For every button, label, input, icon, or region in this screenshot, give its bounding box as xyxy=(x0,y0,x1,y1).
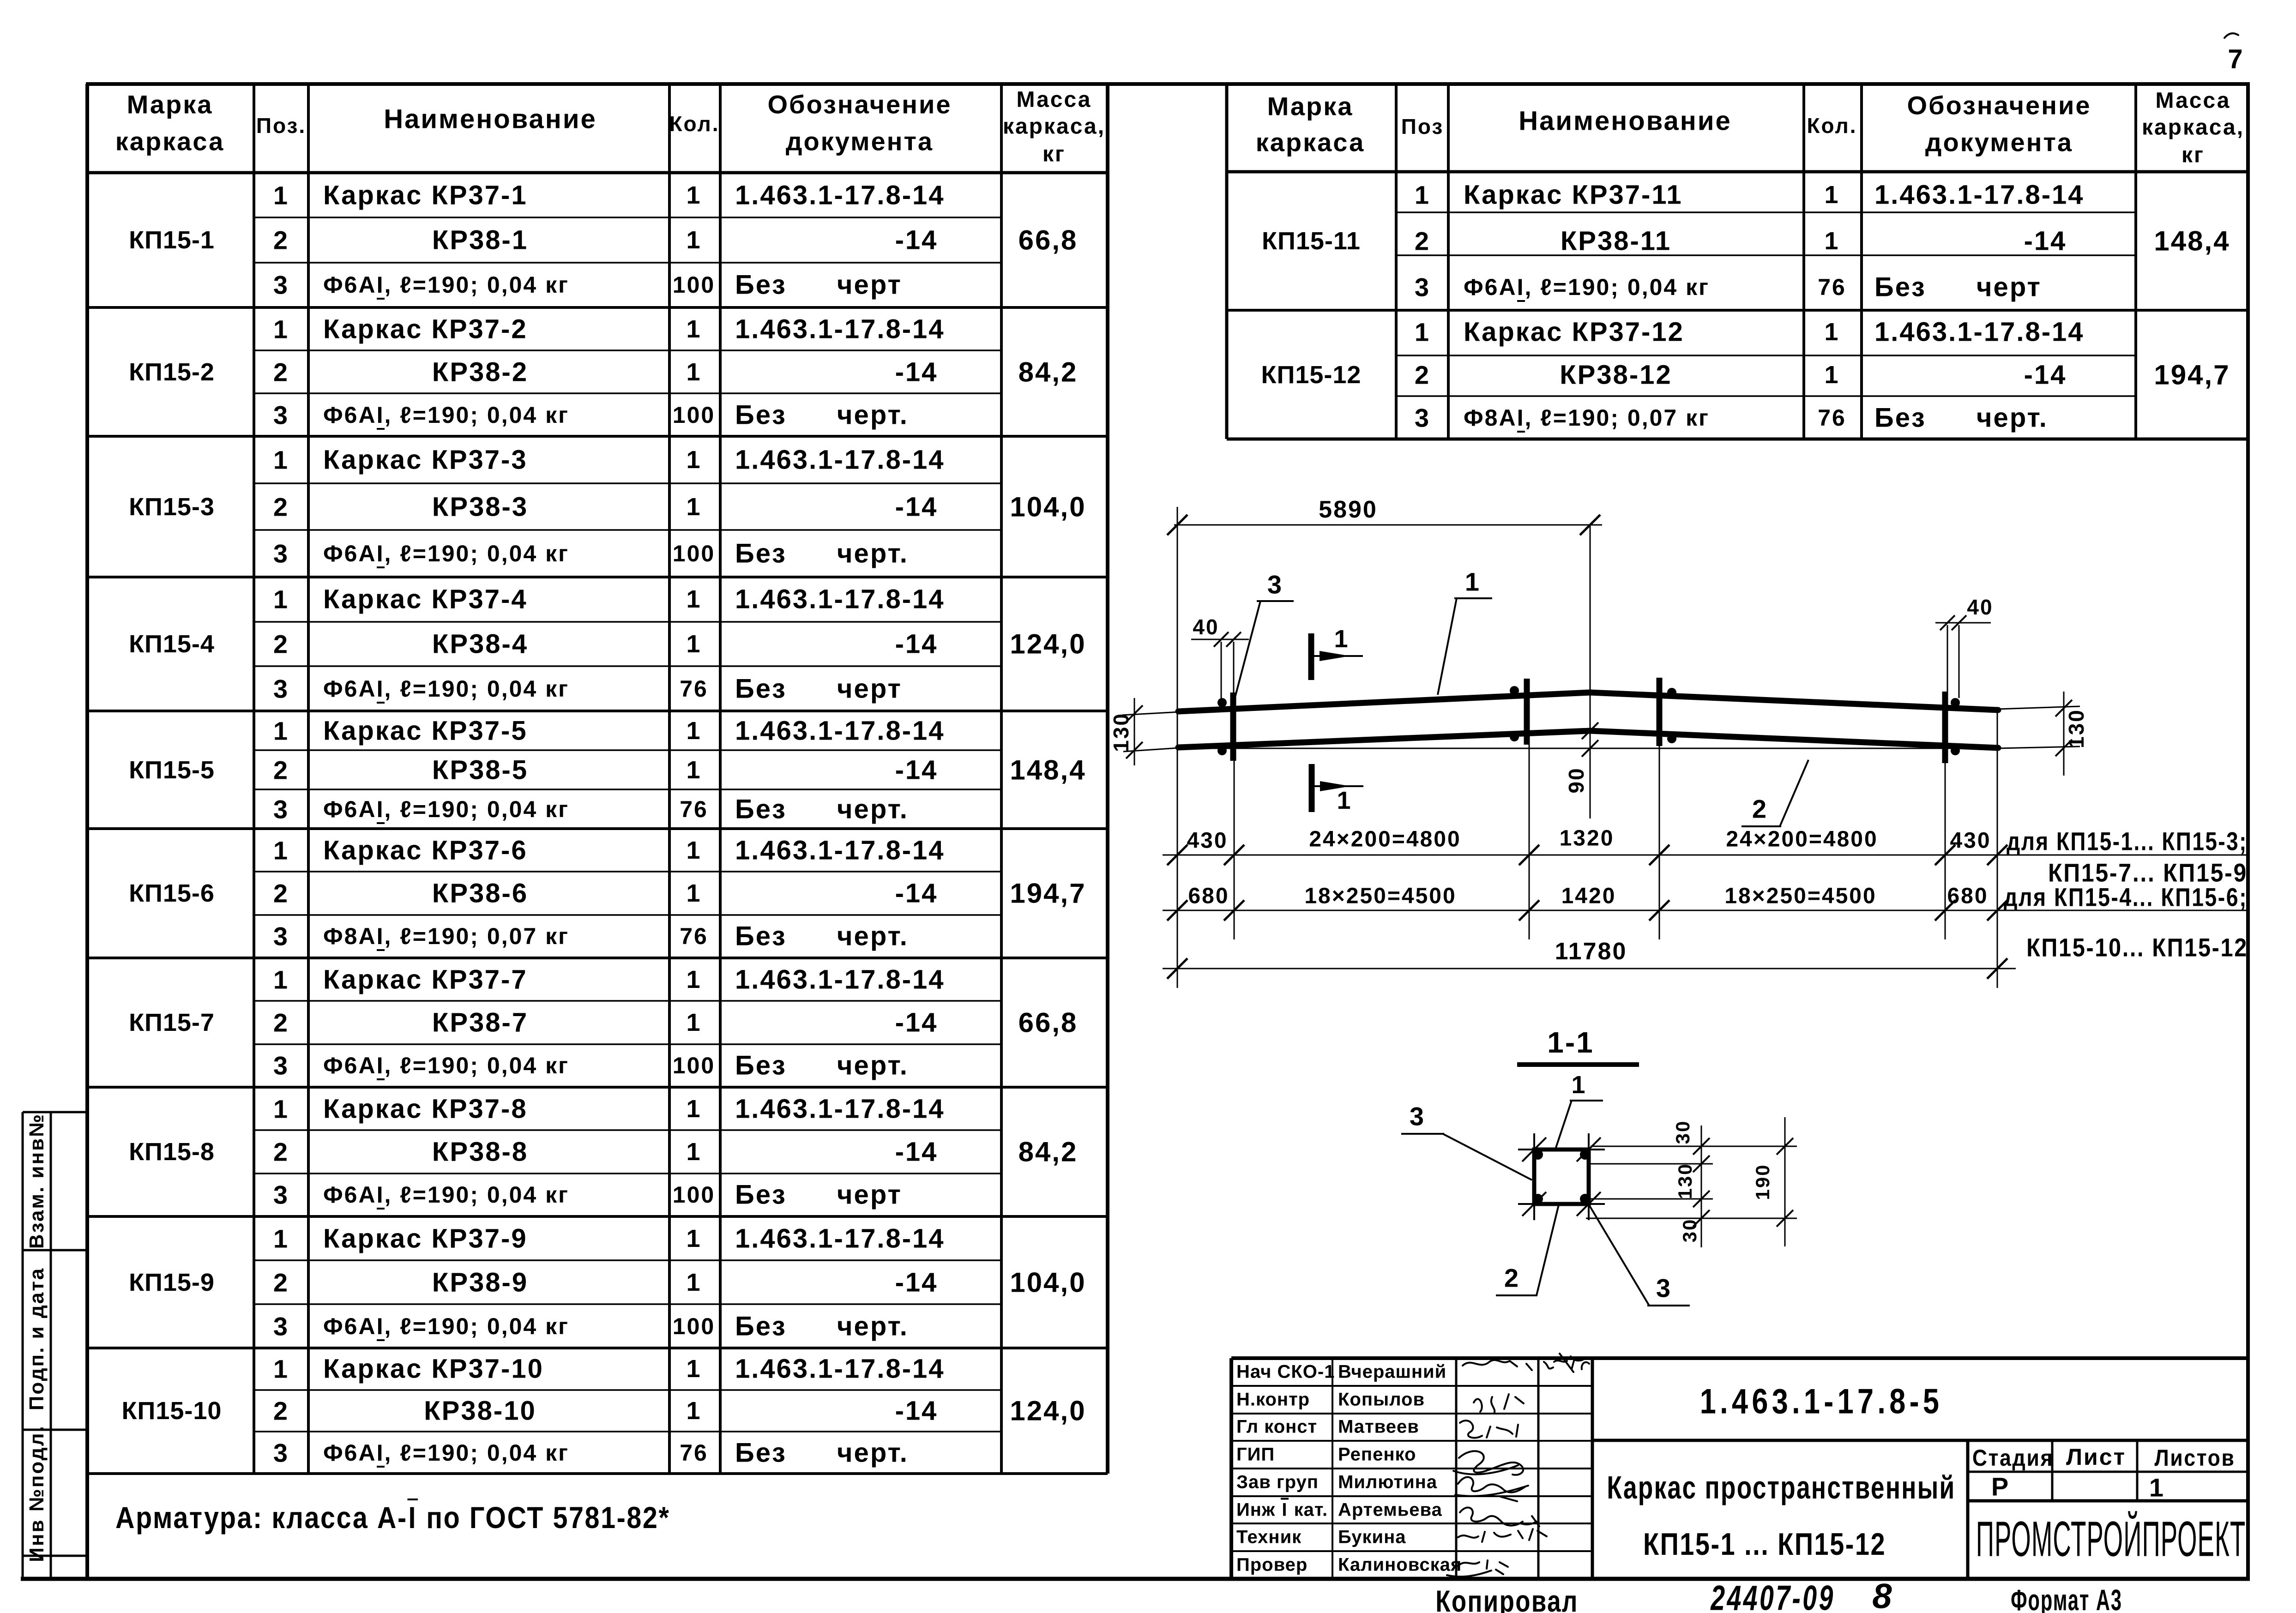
listov value 1 xyxy=(2149,1473,2165,1503)
left margin box line (Podp i data) xyxy=(23,1249,86,1252)
section dim text 130 xyxy=(1674,1162,1696,1199)
right table row КП15-11 xyxy=(1262,227,1361,255)
label 1 (section) xyxy=(1571,1071,1586,1099)
label 3 (elevation) xyxy=(1267,570,1283,600)
right end extension line xyxy=(1997,710,1998,988)
dimension 130 left xyxy=(1134,698,1135,765)
page frame left border xyxy=(85,84,89,1579)
section mark 1 upper xyxy=(1308,633,1314,680)
right table header Poz xyxy=(1401,114,1444,139)
title block divider under document number xyxy=(1592,1439,2249,1442)
bottom chord (element 2) xyxy=(1178,731,1998,748)
right post xyxy=(1942,692,1948,763)
top chord (element 1) xyxy=(1178,692,1998,711)
leader line for label 3 xyxy=(1257,600,1294,602)
left margin boxes outer vertical xyxy=(22,1112,24,1579)
section square corner overshoots xyxy=(1518,1149,1605,1150)
thin extension right bottom xyxy=(1997,746,2080,748)
stadia section verticals xyxy=(1966,1440,1970,1579)
title block role and name texts xyxy=(1236,1361,1335,1382)
signature scribbles xyxy=(1463,1354,1586,1372)
stadia value P xyxy=(1991,1472,2010,1502)
label 3 upper (section) xyxy=(1410,1101,1425,1132)
organization PROMSTROYPROEKT xyxy=(1976,1510,2246,1568)
stadia header xyxy=(1972,1444,2054,1471)
left table row КП15-9 xyxy=(129,1268,215,1297)
left table row КП15-10 xyxy=(122,1396,222,1425)
left table sub-row thin lines xyxy=(254,217,1001,218)
note Armatura klassa A-I po GOST 5781-82 xyxy=(115,1500,670,1535)
dimension text 680 left xyxy=(1188,884,1229,909)
stud left top xyxy=(1217,698,1227,707)
section dimension line 30/130/30 xyxy=(1701,1125,1702,1247)
section extension lines xyxy=(1591,1146,1797,1147)
right table header Naimenovanie xyxy=(1519,106,1732,137)
stud mid-right top xyxy=(1667,688,1676,697)
stud mid-left bottom xyxy=(1510,732,1519,741)
right table sub-row thin lines xyxy=(1396,211,2136,213)
footer Kopiroval xyxy=(1435,1583,1579,1613)
dimension chain row 1 line xyxy=(1163,855,2247,856)
leader for label 1 in section xyxy=(1570,1100,1603,1101)
dimension text 24x200=4800 right xyxy=(1726,827,1878,852)
left table header Naimenovanie xyxy=(384,104,597,135)
dimension text 430 left xyxy=(1187,828,1228,854)
dimension text 24x200=4800 left xyxy=(1309,827,1461,852)
dimension text 11780 xyxy=(1555,938,1627,965)
section mark 1 lower xyxy=(1309,764,1315,812)
left table header bottom line xyxy=(88,171,1108,175)
dimension chain row 1 ticks xyxy=(1167,845,1187,865)
dimension text 40 left xyxy=(1193,614,1219,639)
thin extension left top xyxy=(1122,712,1180,715)
title block name-section row lines xyxy=(1231,1385,1592,1387)
page frame bottom border xyxy=(21,1577,2250,1581)
page frame top border xyxy=(86,82,2250,86)
section 1-1 title underline xyxy=(1517,1062,1639,1067)
dimension chain row 2 ticks xyxy=(1167,900,1187,921)
section dimension line 190 xyxy=(1784,1117,1786,1246)
dimension text 1320 xyxy=(1560,826,1615,851)
right table row lines xyxy=(1227,309,2250,312)
tilde above page number xyxy=(2224,33,2238,38)
rotated label Podp i data xyxy=(25,1267,48,1411)
page frame right border xyxy=(2246,84,2250,1579)
stud right top xyxy=(1951,698,1960,707)
page number 7 xyxy=(2228,44,2244,75)
left margin boxes inner vertical xyxy=(50,1112,52,1579)
right table header Kol xyxy=(1807,113,1857,138)
left table header Massa karkasa kg xyxy=(1017,87,1092,113)
title block left border xyxy=(1229,1358,1233,1579)
dimension text 680 right xyxy=(1947,884,1988,909)
left table vertical borders xyxy=(253,84,255,1474)
dimension 40 right xyxy=(1935,622,1991,624)
section dim text 30 top xyxy=(1672,1120,1694,1144)
annotation KP15-7...KP15-9 xyxy=(2048,858,2248,888)
left table row separator lines xyxy=(88,306,1108,309)
stud mid-left top xyxy=(1510,686,1519,695)
left table header Kol xyxy=(669,111,719,136)
leader line for label 2 xyxy=(1742,825,1781,827)
left table row КП15-7 xyxy=(129,1008,215,1037)
footer sheet 8 xyxy=(1872,1577,1893,1613)
left table row КП15-4 xyxy=(129,630,215,658)
dimension 90 ticks on centerline xyxy=(1582,722,1598,739)
dimension text 5890 xyxy=(1319,496,1378,524)
stud mid-right bottom xyxy=(1667,734,1676,743)
dimension text 40 right xyxy=(1967,595,1993,620)
left margin box line (Inv N podl) xyxy=(23,1429,86,1431)
rotated label Inv N podl xyxy=(25,1425,48,1562)
middle-left post xyxy=(1524,679,1530,745)
document number 1.463.1-17.8-5 xyxy=(1700,1382,1943,1422)
leader line for label 1 xyxy=(1454,597,1492,599)
extension lines below posts xyxy=(1234,759,1235,939)
left table row КП15-1 xyxy=(129,226,215,254)
rebar dots in section xyxy=(1533,1150,1543,1160)
stud left bottom xyxy=(1217,746,1227,755)
right table header Marka karkasa xyxy=(1267,91,1354,121)
annotation dlya KP15-4...KP15-6 xyxy=(2004,882,2248,912)
left table header Oboznachenie dokumenta xyxy=(767,90,952,120)
dimension 40 left xyxy=(1191,639,1249,640)
dimension chain row 2 line xyxy=(1163,910,2247,911)
dimension text 1420 xyxy=(1561,884,1616,909)
label 1 (elevation) xyxy=(1465,567,1481,597)
section square corner slash ticks xyxy=(1522,1138,1546,1162)
vertical centerline at ridge xyxy=(1590,525,1591,819)
thin extension left bottom xyxy=(1123,748,1179,752)
thin extension right top xyxy=(1997,706,2080,709)
left margin box bottom line xyxy=(23,1555,86,1557)
dimension text 18x250=4500 right xyxy=(1724,884,1876,909)
section dim text 190 xyxy=(1752,1163,1774,1200)
left table row КП15-3 xyxy=(129,493,215,521)
section dim text 30 bottom xyxy=(1679,1218,1701,1243)
annotation KP15-10...KP15-12 xyxy=(2026,933,2248,963)
right table vertical borders xyxy=(1225,84,1229,439)
left table header Poz xyxy=(256,113,306,138)
right table row КП15-12 xyxy=(1261,361,1362,389)
leader for label 3 upper-left in section xyxy=(1401,1133,1444,1135)
listov header xyxy=(2154,1444,2235,1471)
dimension text 18x250=4500 left xyxy=(1304,884,1456,909)
right table header bottom line xyxy=(1227,170,2250,174)
title Karkas prostranstvennyi xyxy=(1607,1469,1955,1506)
title KP15-1...KP15-12 xyxy=(1643,1526,1886,1562)
thin straight reference line under bottom chord xyxy=(1179,748,1997,749)
label 3 lower (section) xyxy=(1656,1273,1672,1303)
title block top border xyxy=(1231,1356,2250,1360)
leader for label 2 in section xyxy=(1496,1294,1537,1296)
middle-right post xyxy=(1657,678,1663,746)
footer Format A3 xyxy=(2011,1583,2122,1613)
section mark 1 lower label xyxy=(1337,786,1352,815)
left post (transverse frame pos 3) xyxy=(1230,692,1236,761)
left margin box top line (Vzam inv) xyxy=(23,1111,86,1113)
right table header Massa karkasa kg xyxy=(2156,88,2231,114)
footer document code 24407-09 xyxy=(1711,1578,1835,1613)
stud right bottom xyxy=(1951,746,1960,755)
label 2 (section) xyxy=(1504,1263,1520,1293)
title block name-section verticals xyxy=(1332,1358,1333,1579)
section 1-1 title xyxy=(1547,1025,1594,1059)
left table row КП15-8 xyxy=(129,1138,215,1166)
stadia section horizontals xyxy=(1968,1471,2249,1473)
section mark 1 upper label xyxy=(1334,625,1349,653)
left table row КП15-5 xyxy=(129,756,215,784)
rotated label Vzam inv N xyxy=(25,1113,48,1249)
leader for label 3 lower-right in section xyxy=(1647,1305,1690,1306)
dimension text 90 xyxy=(1564,767,1589,793)
dimension text 130 right xyxy=(2064,709,2089,748)
dimension text 430 right xyxy=(1950,828,1991,854)
right table header Oboznachenie dokumenta xyxy=(1907,90,2091,120)
left table header Marka karkasa xyxy=(127,90,213,120)
list header xyxy=(2066,1444,2126,1470)
dimension 5890 line xyxy=(1174,524,1602,526)
left table row КП15-6 xyxy=(129,879,215,908)
dimension text 130 left xyxy=(1109,712,1133,752)
dimension 130 right xyxy=(2063,692,2065,776)
left table row КП15-2 xyxy=(129,358,215,386)
section square outline xyxy=(1534,1150,1589,1204)
annotation dlya KP15-1...KP15-3 xyxy=(2007,826,2248,856)
left outer extension line xyxy=(1177,507,1178,988)
dimension 11780 line xyxy=(1163,968,2016,969)
label 2 (elevation) xyxy=(1752,794,1768,824)
